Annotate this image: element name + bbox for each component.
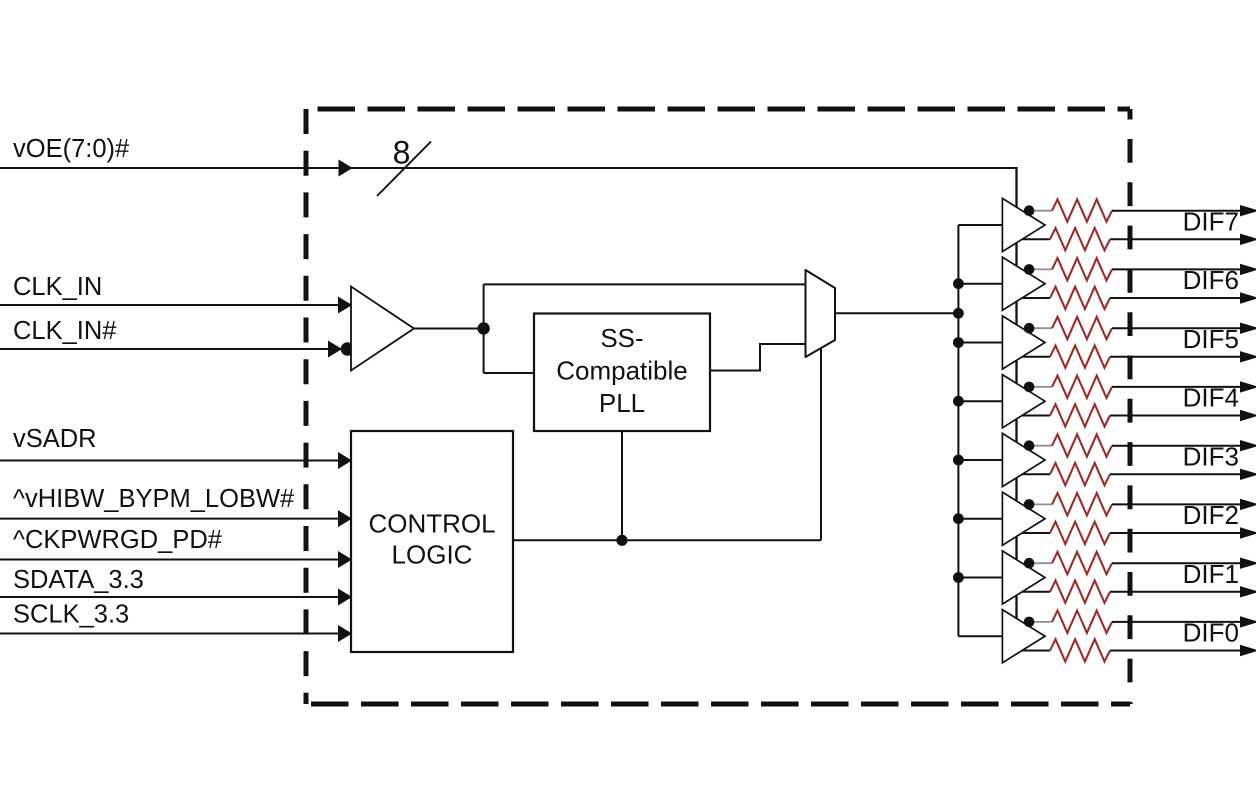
arrowhead SCLK (338, 625, 352, 642)
arrowhead DIF7 true (1240, 205, 1256, 216)
input buffer U1 (351, 287, 414, 371)
wire clock feed DIF2 (958, 518, 1002, 520)
wire CKPWRGD input (0, 559, 351, 561)
wire clock feed DIF5 (958, 342, 1002, 344)
junction dot DIF0 (1024, 617, 1035, 628)
arrowhead DIF4 complement (1240, 410, 1256, 421)
resistor DIF4 series lower (1050, 404, 1110, 426)
wire SCLK input (0, 633, 351, 635)
wire DIF6 true output stub (1031, 268, 1052, 270)
svg-text:LOGIC: LOGIC (392, 540, 473, 570)
arrowhead DIF1 true (1240, 558, 1256, 569)
wire DIF0 complement stub (1022, 650, 1050, 652)
svg-text:DIF5: DIF5 (1183, 324, 1239, 354)
wire DIF5 complement stub (1022, 356, 1050, 358)
arrowhead DIF6 complement (1240, 292, 1256, 303)
junction dot bus DIF6 (953, 278, 964, 289)
resistor DIF4 series upper (1052, 376, 1112, 398)
PLL block U2 (534, 314, 710, 432)
wire DIF5 true output stub (1031, 327, 1052, 329)
wire DIF0 true output stub (1031, 621, 1052, 623)
wire vHIBW input (0, 518, 351, 520)
wire DIF1 true output stub (1031, 562, 1052, 564)
svg-text:CLK_IN: CLK_IN (13, 273, 102, 301)
wire DIF6 true output (1112, 268, 1241, 270)
wire clock feed DIF3 (958, 459, 1002, 461)
wire DIF3 complement stub (1022, 473, 1050, 475)
wire DIF6 complement stub (1022, 297, 1050, 299)
svg-text:SS-: SS- (600, 323, 643, 353)
wire clock feed DIF7 (958, 224, 1002, 226)
wire DIF4 true output (1112, 386, 1241, 388)
wire vSADR input (0, 460, 351, 462)
svg-text:vSADR: vSADR (13, 425, 97, 453)
output buffer DIF3 (1002, 433, 1045, 486)
arrowhead vSADR (338, 452, 352, 469)
wire feedback rail vertical (483, 284, 485, 373)
wire DIF5 complement output (1110, 356, 1241, 358)
wire DIF2 true output (1112, 503, 1241, 505)
junction dot bus DIF2 (953, 513, 964, 524)
wire DIF1 complement output (1110, 591, 1241, 593)
wire DIF4 complement stub (1022, 415, 1050, 417)
resistor DIF3 series lower (1050, 463, 1110, 485)
resistor DIF5 series upper (1052, 317, 1112, 339)
wire vOE horizontal (0, 167, 1017, 169)
output buffer DIF1 (1002, 551, 1045, 604)
arrowhead vOE (339, 160, 353, 177)
wire DIF2 complement stub (1022, 532, 1050, 534)
wire DIF7 complement output (1110, 238, 1241, 240)
arrowhead DIF6 true (1240, 264, 1256, 275)
resistor DIF6 series lower (1050, 287, 1110, 309)
arrowhead DIF4 true (1240, 381, 1256, 392)
svg-text:CLK_IN#: CLK_IN# (13, 317, 117, 345)
wire mux select vertical (820, 348, 822, 540)
junction dot U1 output node (477, 322, 489, 334)
resistor DIF2 series lower (1050, 522, 1110, 544)
svg-text:DIF7: DIF7 (1183, 207, 1239, 237)
wire clock feed DIF1 (958, 577, 1002, 579)
svg-text:SCLK_3.3: SCLK_3.3 (13, 601, 129, 629)
wire DIF2 true output stub (1031, 503, 1052, 505)
junction dot mux output node (953, 308, 964, 319)
wire control logic to mux select (513, 539, 821, 541)
junction dot DIF7 (1024, 205, 1035, 216)
resistor DIF0 series lower (1050, 639, 1110, 661)
wire top rail to mux input 0 (484, 283, 806, 285)
svg-text:SDATA_3.3: SDATA_3.3 (13, 566, 144, 594)
resistor DIF7 series lower (1050, 228, 1110, 250)
svg-text:DIF6: DIF6 (1183, 265, 1239, 295)
junction dot bus DIF3 (953, 455, 964, 466)
wire clock feed DIF4 (958, 400, 1002, 402)
wire mux output (835, 312, 958, 314)
arrowhead SDATA (338, 589, 352, 606)
arrowhead DIF0 true (1240, 616, 1256, 627)
svg-text:DIF1: DIF1 (1183, 559, 1239, 589)
output buffer DIF6 (1002, 257, 1045, 310)
svg-text:vOE(7:0)#: vOE(7:0)# (13, 135, 130, 163)
resistor DIF5 series lower (1050, 346, 1110, 368)
wire DIF1 complement stub (1022, 591, 1050, 593)
arrowhead CLK_IN# (328, 341, 342, 358)
wire CLK_IN# (0, 348, 351, 350)
svg-text:PLL: PLL (599, 388, 645, 418)
wire DIF7 complement stub (1022, 238, 1050, 240)
resistor DIF0 series upper (1052, 611, 1112, 633)
wire U1 output (414, 328, 484, 330)
output buffer DIF7 (1002, 198, 1045, 251)
junction dot control node (616, 535, 627, 546)
output buffer DIF5 (1002, 316, 1045, 369)
arrowhead DIF2 true (1240, 499, 1256, 510)
bus slash (377, 142, 431, 197)
wire DIF7 true output stub (1031, 210, 1052, 212)
wire DIF7 true output (1112, 210, 1241, 212)
wire PLL control vertical (621, 431, 623, 540)
output buffer DIF0 (1002, 610, 1045, 663)
wire clock feed DIF0 (958, 635, 1002, 637)
resistor DIF1 series upper (1052, 552, 1112, 574)
svg-text:CONTROL: CONTROL (368, 509, 495, 539)
arrowhead CLK_IN (338, 297, 352, 314)
wire SDATA input (0, 596, 351, 598)
arrowhead DIF5 complement (1240, 351, 1256, 362)
arrowhead DIF3 complement (1240, 469, 1256, 480)
wire DIF4 true output stub (1031, 386, 1052, 388)
wire DIF3 complement output (1110, 473, 1241, 475)
junction dot bus DIF1 (953, 572, 964, 583)
arrowhead vHIBW (338, 510, 352, 527)
wire vOE vertical drop (1015, 167, 1017, 620)
IC boundary dashed box (306, 109, 1130, 704)
wire DIF5 true output (1112, 327, 1241, 329)
wire DIF3 true output (1112, 445, 1241, 447)
arrowhead CKPWRGD (338, 551, 352, 568)
resistor DIF1 series lower (1050, 581, 1110, 603)
inverting input dot CLK_IN# (341, 342, 355, 356)
arrowhead DIF2 complement (1240, 527, 1256, 538)
wire DIF4 complement output (1110, 415, 1241, 417)
junction dot bus DIF5 (953, 337, 964, 348)
svg-text:^CKPWRGD_PD#: ^CKPWRGD_PD# (13, 526, 223, 554)
junction dot DIF2 (1024, 499, 1035, 510)
output buffer DIF2 (1002, 492, 1045, 545)
arrowhead DIF1 complement (1240, 586, 1256, 597)
arrowhead DIF3 true (1240, 440, 1256, 451)
control logic block U3 (351, 431, 513, 652)
junction dot DIF4 (1024, 382, 1035, 393)
output buffer DIF4 (1002, 375, 1045, 428)
wire CLK_IN (0, 304, 351, 306)
junction dot bus DIF4 (953, 396, 964, 407)
wire DIF6 complement output (1110, 297, 1241, 299)
resistor DIF2 series upper (1052, 493, 1112, 515)
mux U4 (806, 270, 836, 357)
wire clock bus vertical (957, 225, 959, 636)
svg-text:DIF3: DIF3 (1183, 442, 1239, 472)
wire DIF3 true output stub (1031, 445, 1052, 447)
svg-text:DIF4: DIF4 (1183, 383, 1239, 413)
svg-text:DIF2: DIF2 (1183, 500, 1239, 530)
junction dot DIF1 (1024, 558, 1035, 569)
arrowhead DIF5 true (1240, 323, 1256, 334)
wire to PLL input (484, 372, 534, 374)
arrowhead DIF0 complement (1240, 645, 1256, 656)
wire clock feed DIF6 (958, 283, 1002, 285)
wire DIF2 complement output (1110, 532, 1241, 534)
junction dot DIF6 (1024, 264, 1035, 275)
arrowhead DIF7 complement (1240, 234, 1256, 245)
svg-text:^vHIBW_BYPM_LOBW#: ^vHIBW_BYPM_LOBW# (13, 485, 295, 513)
resistor DIF6 series upper (1052, 258, 1112, 280)
resistor DIF3 series upper (1052, 434, 1112, 456)
junction dot DIF5 (1024, 323, 1035, 334)
junction dot DIF3 (1024, 440, 1035, 451)
svg-text:DIF0: DIF0 (1183, 618, 1239, 648)
svg-text:Compatible: Compatible (556, 356, 688, 386)
wire PLL output with jog to mux input 1 (710, 370, 760, 372)
wire DIF0 complement output (1110, 650, 1241, 652)
wire DIF1 true output (1112, 562, 1241, 564)
resistor DIF7 series upper (1052, 199, 1112, 221)
wire DIF0 true output (1112, 621, 1241, 623)
